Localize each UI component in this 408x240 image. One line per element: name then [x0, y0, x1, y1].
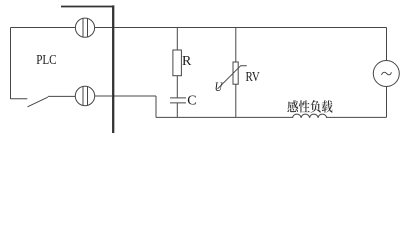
- thick bus bar horizontal top: [61, 6, 114, 8]
- wire RV to bottom: [235, 84, 237, 117]
- svg-text:C: C: [187, 93, 196, 108]
- label 感性负载 (inductive load): [287, 100, 332, 112]
- wire C to bottom: [176, 103, 178, 117]
- wire R branch top: [176, 28, 178, 51]
- svg-text:RV: RV: [246, 70, 260, 85]
- wire PLC top to terminal circle: [11, 27, 76, 29]
- svg-text:U: U: [215, 79, 224, 94]
- varistor RV diagonal with tail: [218, 66, 247, 89]
- capacitor C plates: [170, 98, 186, 103]
- wire AC source top drop: [386, 28, 388, 61]
- wire bottom row left: [156, 116, 293, 118]
- wire switch to lower terminal: [48, 95, 76, 97]
- terminal connector lower: [75, 86, 94, 105]
- wire PLC bottom stub: [11, 98, 28, 100]
- inductor L (inductive load): [293, 114, 327, 118]
- wire corner node down: [155, 96, 157, 117]
- wire RV branch top: [235, 28, 237, 63]
- wire lower terminal to corner node: [95, 95, 156, 97]
- wire R to C: [176, 76, 178, 98]
- resistor R body: [173, 50, 182, 76]
- PLC box left side: [10, 28, 12, 100]
- svg-text:PLC: PLC: [36, 52, 56, 67]
- AC source G1 circle: [373, 61, 399, 87]
- switch S1 blade (NO contact): [28, 97, 48, 107]
- wire AC source bottom rise: [386, 87, 388, 118]
- svg-text:R: R: [182, 54, 192, 69]
- wire top row: upper terminal to right corner: [95, 27, 387, 29]
- terminal connector upper: [75, 18, 94, 37]
- wire bottom row right: [327, 116, 387, 118]
- thick bus bar vertical: [112, 5, 114, 133]
- AC source tilde: [382, 72, 392, 75]
- varistor RV body: [233, 62, 238, 84]
